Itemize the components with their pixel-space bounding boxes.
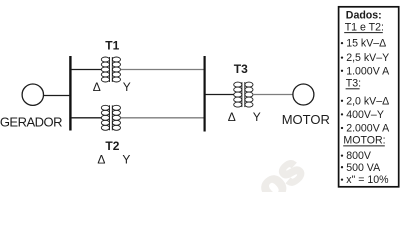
svg-text:800V: 800V (346, 150, 372, 162)
svg-text:T1: T1 (105, 39, 119, 53)
svg-text:GERADOR: GERADOR (0, 114, 62, 129)
svg-text:x" = 10%: x" = 10% (346, 174, 389, 186)
svg-text:Dados:: Dados: (346, 10, 382, 22)
svg-text:MOTOR:: MOTOR: (343, 134, 385, 146)
svg-text:T3:: T3: (346, 78, 361, 90)
svg-text:Δ: Δ (228, 110, 236, 124)
svg-text:Y: Y (123, 80, 131, 94)
svg-text:Δ: Δ (93, 80, 101, 94)
svg-text:400V–Y: 400V–Y (346, 109, 384, 121)
svg-text:2,5 kV–Y: 2,5 kV–Y (346, 52, 389, 64)
svg-text:2.000V A: 2.000V A (346, 123, 390, 135)
svg-text:500 VA: 500 VA (346, 162, 381, 174)
svg-text:Y: Y (253, 110, 261, 124)
svg-text:Y: Y (122, 152, 130, 166)
svg-text:T1 e T2:: T1 e T2: (345, 22, 384, 34)
svg-text:2,0 kV–Δ: 2,0 kV–Δ (346, 95, 389, 107)
svg-text:MOTOR: MOTOR (282, 112, 330, 127)
svg-text:15 kV–Δ: 15 kV–Δ (346, 38, 386, 50)
svg-text:1.000V A: 1.000V A (346, 65, 390, 77)
svg-text:os: os (249, 147, 313, 192)
svg-text:T2: T2 (105, 139, 119, 153)
svg-text:T3: T3 (234, 62, 248, 76)
svg-text:Δ: Δ (97, 152, 105, 166)
